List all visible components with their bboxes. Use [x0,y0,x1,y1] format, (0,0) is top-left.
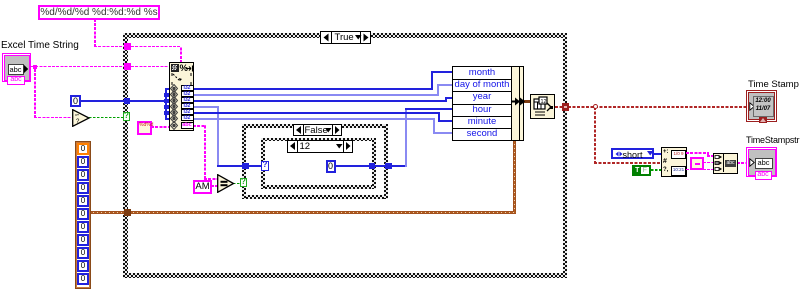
svg-text:12: 12 [541,99,547,105]
